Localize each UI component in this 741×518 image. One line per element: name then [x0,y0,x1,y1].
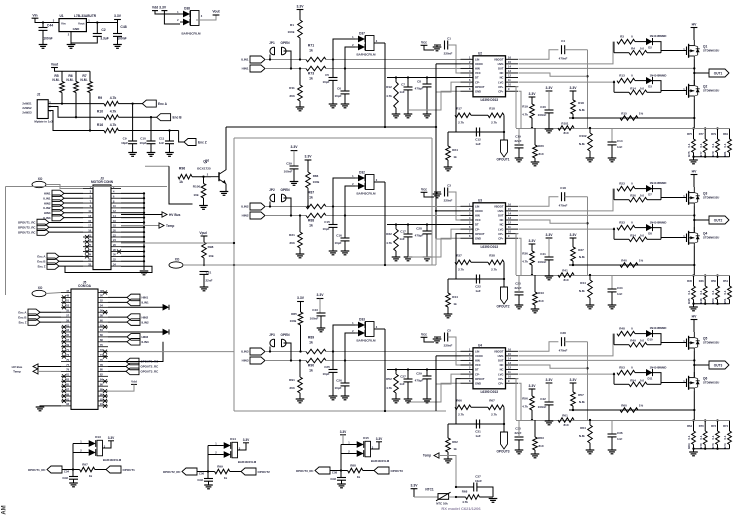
svg-text:NC: NC [500,71,504,75]
gray bus top y138 [234,137,432,139]
label R86 [313,174,319,178]
svg-text:XOXO: XOXO [475,354,483,358]
svg-text:R10: R10 [97,110,103,114]
svg-text:2.7k: 2.7k [491,120,497,124]
svg-text:CP+: CP+ [498,381,504,385]
thermistor NTC1 [436,492,451,501]
no-connect J3 left row14 [85,254,89,258]
no-connect J5 right row7 [103,325,107,329]
label R24 1k [453,155,457,159]
svg-text:R102: R102 [579,134,587,138]
wire C30 gnd lead [518,440,520,450]
svg-text:C20: C20 [515,282,521,286]
ground R62 [444,459,453,463]
wire DT line [387,224,461,226]
power 3.3V C39 [291,145,299,150]
svg-text:3.3V: 3.3V [546,233,554,237]
output flag OPOUT3 [496,432,509,454]
no-connect J5 left row20 [62,389,66,393]
output flag OPOUT2 [241,468,270,475]
wire R36 bottom [531,265,533,275]
junction R37 [572,264,574,266]
wire C27 gnd lead [407,382,409,399]
svg-text:0.1: 0.1 [711,290,715,294]
wire bank gnd stub [693,449,695,452]
junction LVG node [613,81,615,83]
ground R20 [531,162,540,166]
svg-text:0.0: 0.0 [640,233,645,237]
wire OPOUT2_RC to J3 [49,226,83,228]
label R57 N.M. [579,400,585,404]
power HV Q1 [691,23,698,28]
resistor R88 1k [306,213,326,218]
svg-text:C9: C9 [123,136,127,140]
power label 3.3V D13 [108,436,115,440]
svg-text:R77: R77 [699,151,703,157]
wire phase node [693,206,695,232]
svg-text:D14: D14 [230,437,236,441]
svg-text:10pF: 10pF [139,141,146,145]
svg-text:C34: C34 [617,286,623,290]
label R77 [699,132,704,136]
wire C5 to VCC pin [448,337,461,365]
svg-text:R50: R50 [711,298,715,304]
wire EncZ under J3 [65,266,152,272]
ground C5 [329,104,338,108]
svg-text:470pF: 470pF [415,234,424,238]
label R64 [687,424,692,428]
label C34 [617,286,623,290]
wire D15 anode1 [341,444,357,446]
wire LVG route [519,373,615,375]
label Mplate in 1x3 [34,120,53,124]
label R64 [580,426,586,430]
junction sense line [693,409,695,411]
no-connect J5 right row12 [103,350,107,354]
svg-text:R15: R15 [621,112,627,116]
label R34 0.0 [640,233,645,237]
wire diode hi wire [635,41,646,43]
label R62 1k [453,447,457,451]
label HIN1 J5 [142,296,149,300]
svg-text:1N4148WMD: 1N4148WMD [650,181,667,185]
resistor R20 810 [533,145,538,158]
svg-text:C17: C17 [400,230,406,234]
wire Vdd to D38 anode1 [155,11,180,14]
wire OPOUT down [456,234,461,263]
svg-text:N.M.: N.M. [579,289,585,293]
svg-text:C11: C11 [159,136,165,140]
capacitor C22 1uF [476,275,479,284]
wire J3 right row9 [121,231,144,233]
junction NTC divider [455,496,457,498]
label R11 [289,86,295,90]
svg-text:0.1: 0.1 [723,435,727,439]
svg-text:3.3V: 3.3V [570,378,578,382]
svg-text:Vout: Vout [78,21,84,25]
wire C1 left [434,44,441,46]
junction bank col2 top [716,419,718,421]
resistor R12 4.7k [394,82,399,108]
capacitor C2 3.3uF [93,34,102,37]
junction J3 right row2 [143,197,145,199]
capacitor C41 100nF [545,257,554,260]
label R11 value [289,94,294,98]
wire C18 to gate row [565,196,588,198]
no-connect J5 left row8 [62,330,66,334]
resistor R99 1k [215,469,230,474]
svg-text:C41: C41 [540,252,546,256]
wire ILIN1 line b [326,59,461,61]
svg-text:3.3V: 3.3V [570,86,578,90]
ground bank [689,452,698,456]
wire R91 top [299,361,301,378]
svg-text:2.7k: 2.7k [458,412,464,416]
junction J3 right row5 [143,212,145,214]
resistor R50 0.1 [716,286,720,300]
label R75 [687,132,692,136]
wire source down [693,99,695,129]
svg-text:1k: 1k [309,224,313,228]
label R46 r2 rot [699,298,703,304]
wire C29 lead [426,370,428,376]
svg-text:R56: R56 [522,397,528,401]
label R61 810 [563,423,568,427]
svg-text:1uF: 1uF [475,289,481,293]
wire C5 gndstub [436,337,438,339]
input flag OPOUT2_RC J3 [37,224,49,230]
label R87 1k [309,196,313,200]
wire J3 right row13 [121,251,144,253]
label C41 100nF [538,260,547,264]
svg-text:BAR43CFILM: BAR43CFILM [356,53,376,57]
svg-text:810: 810 [563,423,568,427]
label C9 value [121,141,128,145]
wire C1 gndstub [436,45,438,47]
gate driver IC U4 L6390 [461,343,519,394]
no-connect J3 left row13 [85,250,89,254]
junction JP3 left [269,350,271,352]
junction J3 right row1 [143,192,145,194]
label R15 1% [639,112,644,116]
wire bank col1 top [704,421,706,432]
label R63 810 [538,444,543,448]
label C38 470nF [559,349,568,353]
svg-text:D8: D8 [648,232,652,236]
diode D10 1N4148 [646,326,666,341]
no-connect J5 left row7 [62,325,66,329]
wire C36 top [611,420,613,434]
mosfet Q4 STD9NK52 [683,227,719,246]
wire C43 gnd lead [320,316,322,328]
svg-text:C21: C21 [206,271,212,275]
wire Rg4 right [647,383,661,385]
svg-text:Vcc: Vcc [421,188,427,192]
resistor R15 1% [620,116,638,121]
svg-text:ILIN1: ILIN1 [43,196,50,200]
wire diode out [374,328,385,330]
wire C9 gnd lead [132,144,134,153]
svg-text:Enc Z: Enc Z [19,320,27,324]
wire R68 row [456,496,466,498]
no-connect J5 left row2 [62,300,66,304]
junction C54 [72,468,74,470]
junction bank col1 bot [704,303,706,305]
label R32 [386,232,392,236]
wire R19 top [531,97,533,104]
dual diode D38 BAR43CFILM [177,6,203,35]
wire XOXO pin [436,210,461,212]
no-connect J3 left row10 [85,235,89,239]
svg-text:4.7k: 4.7k [522,113,528,117]
wire NTC row [414,496,438,498]
resistor R18 2.7k [488,113,504,118]
label R81 0.1 rot [723,143,727,147]
wire R18 stem [572,91,574,100]
wire C11 lead [169,131,171,142]
output flag OUT3 [709,361,729,369]
resistor R7 N.M. [80,74,92,92]
svg-text:HIN2: HIN2 [242,214,249,218]
junction R21 [299,214,301,216]
svg-text:R24: R24 [452,148,458,152]
capacitor C3 220nF [445,188,448,197]
label R41 [562,269,568,273]
wire CP- route [436,374,461,410]
label R20 810 [538,152,543,156]
label C19 [515,135,521,139]
transistor Q7 part BCX1725 [197,166,211,170]
svg-text:C16: C16 [336,234,342,238]
resistor R77 0.1 [703,139,707,153]
label C3 220nF [444,199,453,203]
net label Temp J5 [13,370,21,374]
ground C39 [290,182,299,186]
junction phase out [693,364,695,366]
junction R86/ILIN2 [307,205,309,207]
label R71 [308,44,314,48]
junction OPOUT flag [503,423,505,425]
svg-text:D11: D11 [648,377,653,381]
label R77 r2 rot [699,151,703,157]
wire ILIN3 line a [265,351,306,353]
junction caps b [344,359,346,361]
ground C25 [329,396,338,400]
svg-text:R41: R41 [562,269,568,273]
label R60 [621,404,627,408]
label R70 0.1 rot [699,435,703,439]
power 3.3V rail top-left [114,14,122,20]
junction bank col1 bot [704,448,706,450]
junction R91 [299,359,301,361]
junction phase outrow [693,359,695,361]
wire C3 left [434,191,441,193]
junction sense/Rnm1 [572,409,574,411]
input flag ILIN3 J3 [52,214,64,220]
ground C14 [608,158,617,162]
wire J3 right row1 [121,192,144,194]
connector J2 box [37,93,48,119]
svg-text:2xWS2: 2xWS2 [22,106,32,110]
pin number 1 U1 output [88,18,90,22]
output flag OPOUT2 [496,287,509,309]
svg-text:C25: C25 [324,365,330,369]
wire HVG route [519,189,614,211]
svg-text:1N4148WMD: 1N4148WMD [650,220,667,224]
input flag HIN3 [250,357,265,364]
wire R21 top [299,216,301,233]
svg-text:C7: C7 [401,83,405,87]
label C20 22nF [514,286,521,290]
junction LVG node [613,228,615,230]
svg-text:R46: R46 [699,298,703,304]
svg-text:Vin: Vin [61,21,66,25]
label R44 N.M. [579,289,585,293]
label C26 [336,379,342,383]
label C17 1nF [399,237,405,241]
ground R11 [296,107,305,111]
label HIN1 J3 [44,192,51,196]
junction JP3 right [290,359,292,361]
label R90 1k [309,369,313,373]
svg-text:1nF: 1nF [159,141,165,145]
wire J5 to HIN2 [108,316,127,318]
label C43 100nF [310,317,319,321]
ground R43 [531,309,540,313]
svg-text:NC: NC [500,363,504,367]
svg-text:R81: R81 [723,151,727,157]
label R88 1k [357,475,361,479]
wire diode anode2 [345,186,355,216]
wire Rg4 right [647,91,661,93]
svg-text:ILIN3: ILIN3 [241,350,249,354]
connector XO pad J5 [32,286,46,297]
junction D33/XO [384,410,386,412]
svg-text:0.1: 0.1 [723,290,727,294]
svg-text:N.M.: N.M. [52,78,59,82]
svg-text:OPOUT3: OPOUT3 [496,450,509,454]
wire R52 gnd lead [395,393,397,399]
wire D15 vert [340,445,342,471]
svg-text:3.3V: 3.3V [317,293,325,297]
label C43 [312,308,318,312]
svg-text:OPOUT3_RC: OPOUT3_RC [296,469,315,473]
resistor R9 4.7k [98,96,119,106]
mosfet Q3 STD9NK52 [683,187,719,206]
svg-text:R57: R57 [578,393,584,397]
ground C44 [39,45,48,49]
svg-text:10pF: 10pF [121,141,128,145]
label R37 N.M. [579,255,585,259]
junction phase out [693,219,695,221]
svg-text:HIN3: HIN3 [44,211,51,215]
ground C3 [433,194,442,198]
wire OPOUT2_RC row [197,471,215,473]
wire Enc B to J3 [59,260,83,262]
svg-text:OPOUT1: OPOUT1 [496,158,509,162]
net label HV Bus [169,213,181,217]
label HIN2 J3 [44,201,51,205]
label ILIN2 [241,205,249,209]
no-connect J5 left row17 [62,374,66,378]
input flag Enc A J3 [47,253,59,259]
no-connect J5 left row9 [62,335,66,339]
label R44 [452,295,458,299]
svg-text:R1: R1 [290,23,294,27]
svg-text:OPEN: OPEN [280,333,290,337]
label R70 r2 rot [699,443,703,449]
wire OUT route [519,214,695,216]
svg-text:R36: R36 [522,252,528,256]
resistor R87 1k [306,204,326,209]
wire OPOUT down [456,379,461,408]
svg-text:HIN1: HIN1 [242,67,249,71]
wire bank gnd stub [693,304,695,307]
junction DT b [407,368,409,370]
svg-text:D37: D37 [359,31,365,35]
ground R102 [586,158,595,162]
wire OPOUT vert right [503,262,505,287]
no-connect J5 right row0 [103,291,107,295]
gate driver IC U2 L6390 [461,51,519,102]
power 3.3V C43 [317,293,325,299]
output flag Enc B [157,114,183,121]
ground R12 [392,114,401,118]
label R75 0.1 rot [687,143,691,147]
wire R16 row [119,130,179,132]
svg-text:BAR43CFILM: BAR43CFILM [371,459,390,463]
junction J3 right row7 [143,221,145,223]
wire C58 lead [340,471,342,478]
wire Vout rail to pullups [55,68,91,72]
no-connect J5 left row21 [62,394,66,398]
wire bank col0 top [693,421,695,432]
svg-text:R20: R20 [538,144,544,148]
input flag ILIN1 [250,56,265,63]
no-connect J5 right row18 [103,379,107,383]
label 3.3uF [100,37,108,41]
power 3.3V R36 [529,239,537,244]
svg-text:10pF: 10pF [322,372,329,376]
wire bank col2 bot [717,445,719,449]
wire R27 mid [471,114,488,116]
svg-text:CP+: CP+ [498,85,504,89]
svg-text:R51: R51 [723,279,728,283]
label ILIN3 J5 [142,340,149,344]
svg-text:ILIN2: ILIN2 [142,320,149,324]
label C20 [515,282,521,286]
wire diode anode2 [345,333,355,361]
label ILIN3 [241,350,249,354]
wire R102 top [589,128,591,133]
svg-text:0.0: 0.0 [640,86,645,90]
power bar 3.3V D15 top [340,434,346,436]
label D15 BAR43CFILM [371,459,390,463]
ground bank [689,160,698,164]
svg-text:OPOUT2: OPOUT2 [496,305,509,309]
svg-text:R33: R33 [619,221,625,225]
label HIN3 J5 [142,335,149,339]
svg-text:3.3V: 3.3V [305,155,313,159]
label R48 [619,327,625,331]
wire R64 gnd lead [589,443,591,450]
flag ILIN3 J5 [127,339,140,346]
label R54 0.0 [640,378,645,382]
wire HIN3 line b [326,360,461,362]
gray bus vertical x234 [233,138,235,411]
svg-text:L6390 D013: L6390 D013 [480,98,498,102]
svg-text:R50: R50 [711,279,716,283]
